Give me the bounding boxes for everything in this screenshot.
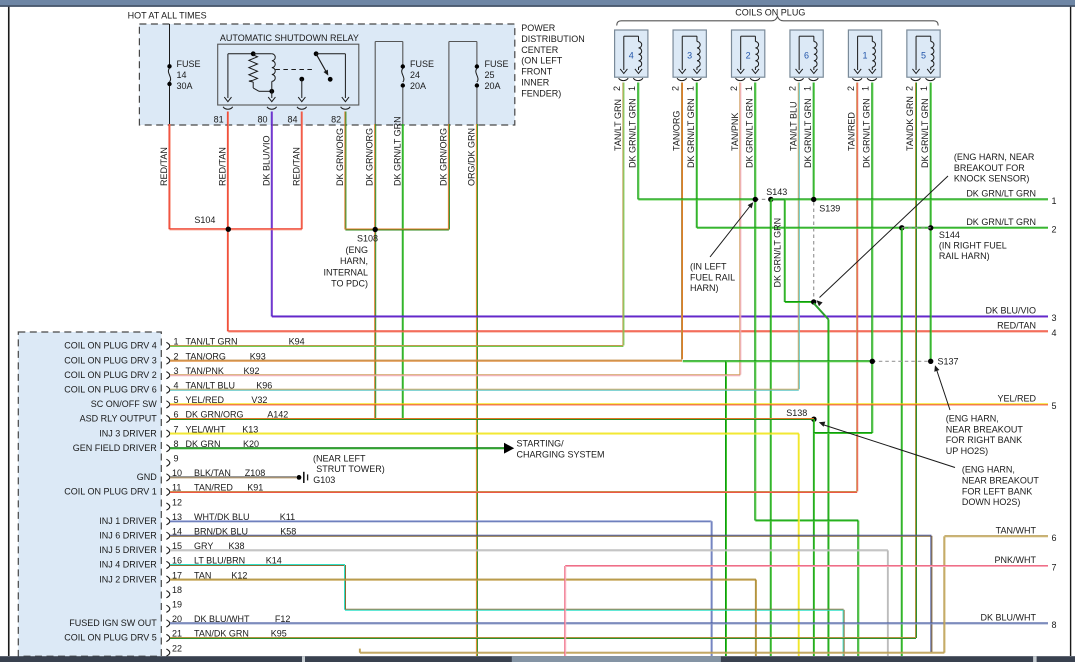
- svg-text:RAIL HARN): RAIL HARN): [939, 251, 990, 261]
- svg-text:DK GRN/ORG: DK GRN/ORG: [438, 128, 448, 186]
- svg-text:14: 14: [177, 70, 187, 80]
- svg-text:DK GRN/LT GRN: DK GRN/LT GRN: [686, 98, 696, 168]
- svg-text:DK GRN/LT GRN: DK GRN/LT GRN: [861, 98, 871, 168]
- svg-text:1: 1: [1052, 196, 1057, 206]
- svg-text:30A: 30A: [177, 81, 193, 91]
- svg-text:DK GRN/LT GRN: DK GRN/LT GRN: [773, 218, 783, 288]
- svg-text:GEN FIELD DRIVER: GEN FIELD DRIVER: [73, 443, 158, 453]
- svg-text:S108: S108: [357, 234, 378, 244]
- svg-text:ASD RLY OUTPUT: ASD RLY OUTPUT: [80, 414, 158, 424]
- svg-text:12: 12: [172, 497, 182, 507]
- svg-text:2: 2: [612, 86, 622, 91]
- svg-text:INJ 2 DRIVER: INJ 2 DRIVER: [99, 574, 157, 584]
- svg-text:22: 22: [172, 643, 182, 653]
- svg-text:81: 81: [214, 115, 224, 125]
- svg-text:(ENG HARN, NEAR: (ENG HARN, NEAR: [954, 152, 1035, 162]
- svg-text:CHARGING SYSTEM: CHARGING SYSTEM: [517, 449, 605, 459]
- svg-text:YEL/RED: YEL/RED: [997, 394, 1036, 404]
- svg-text:TAN/WHT: TAN/WHT: [996, 526, 1037, 536]
- svg-text:NEAR BREAKOUT: NEAR BREAKOUT: [946, 424, 1024, 434]
- svg-text:DK GRN/LT GRN: DK GRN/LT GRN: [920, 98, 930, 168]
- svg-text:INNER: INNER: [521, 78, 550, 88]
- svg-text:DK GRN/LT GRN: DK GRN/LT GRN: [628, 98, 638, 168]
- svg-text:1: 1: [744, 86, 754, 91]
- svg-text:HARN): HARN): [690, 283, 719, 293]
- svg-text:INJ 5 DRIVER: INJ 5 DRIVER: [99, 545, 157, 555]
- svg-text:HOT AT ALL TIMES: HOT AT ALL TIMES: [128, 11, 207, 21]
- svg-text:DK BLU/WHT: DK BLU/WHT: [980, 613, 1036, 623]
- svg-text:2: 2: [746, 51, 751, 61]
- svg-text:STARTING/: STARTING/: [517, 439, 565, 449]
- svg-text:DK GRN/LT GRN: DK GRN/LT GRN: [745, 98, 755, 168]
- svg-text:2: 2: [788, 86, 798, 91]
- svg-text:20A: 20A: [485, 81, 501, 91]
- svg-text:RED/TAN: RED/TAN: [997, 321, 1036, 331]
- svg-text:ORG/DK GRN: ORG/DK GRN: [466, 128, 476, 186]
- svg-text:COILS ON PLUG: COILS ON PLUG: [735, 8, 805, 18]
- svg-text:UP HO2S): UP HO2S): [946, 446, 988, 456]
- svg-text:FUSE: FUSE: [177, 59, 201, 69]
- svg-text:INJ 4 DRIVER: INJ 4 DRIVER: [99, 560, 157, 570]
- svg-text:3: 3: [1052, 313, 1057, 323]
- svg-text:S144: S144: [939, 230, 960, 240]
- svg-text:GND: GND: [137, 472, 158, 482]
- svg-text:18: 18: [172, 585, 182, 595]
- svg-text:2: 2: [729, 86, 739, 91]
- svg-text:S138: S138: [786, 408, 807, 418]
- svg-text:S104: S104: [194, 215, 215, 225]
- svg-text:(ENG HARN,: (ENG HARN,: [962, 465, 1015, 475]
- svg-text:TO PDC): TO PDC): [331, 279, 368, 289]
- svg-text:FRONT: FRONT: [521, 67, 552, 77]
- svg-text:COIL ON PLUG DRV 1: COIL ON PLUG DRV 1: [64, 487, 157, 497]
- svg-text:TAN/LT GRN: TAN/LT GRN: [613, 99, 623, 151]
- svg-text:84: 84: [287, 115, 297, 125]
- svg-text:DK GRN/LT GRN: DK GRN/LT GRN: [966, 189, 1036, 199]
- svg-text:TAN/ORG: TAN/ORG: [671, 111, 681, 151]
- svg-text:(NEAR LEFT: (NEAR LEFT: [313, 453, 366, 463]
- svg-text:KNOCK SENSOR): KNOCK SENSOR): [954, 174, 1030, 184]
- svg-text:PNK/WHT: PNK/WHT: [995, 555, 1037, 565]
- svg-text:FOR LEFT BANK: FOR LEFT BANK: [962, 486, 1032, 496]
- svg-text:DK GRN/LT GRN: DK GRN/LT GRN: [392, 116, 402, 186]
- svg-text:(ON LEFT: (ON LEFT: [521, 56, 563, 66]
- svg-text:HARN,: HARN,: [340, 256, 368, 266]
- svg-text:1: 1: [627, 86, 637, 91]
- svg-text:1: 1: [685, 86, 695, 91]
- svg-text:RED/TAN: RED/TAN: [159, 147, 169, 186]
- svg-text:INJ 3 DRIVER: INJ 3 DRIVER: [99, 428, 157, 438]
- svg-text:DOWN HO2S): DOWN HO2S): [962, 497, 1021, 507]
- svg-text:NEAR BREAKOUT: NEAR BREAKOUT: [962, 476, 1040, 486]
- svg-text:1: 1: [919, 86, 929, 91]
- svg-text:82: 82: [331, 115, 341, 125]
- svg-text:24: 24: [410, 70, 420, 80]
- svg-text:INJ 1 DRIVER: INJ 1 DRIVER: [99, 516, 157, 526]
- svg-text:FENDER): FENDER): [521, 88, 561, 98]
- svg-text:2: 2: [1052, 224, 1057, 234]
- svg-text:TAN/RED: TAN/RED: [847, 112, 857, 151]
- svg-text:DK BLU/VIO: DK BLU/VIO: [261, 135, 271, 186]
- svg-text:COIL ON PLUG DRV 4: COIL ON PLUG DRV 4: [64, 341, 157, 351]
- svg-text:DISTRIBUTION: DISTRIBUTION: [521, 34, 585, 44]
- svg-text:2: 2: [846, 86, 856, 91]
- svg-text:G103: G103: [313, 475, 335, 485]
- svg-text:20A: 20A: [410, 81, 426, 91]
- svg-text:1: 1: [802, 86, 812, 91]
- svg-text:FUEL RAIL: FUEL RAIL: [690, 272, 735, 282]
- svg-text:DK GRN/LT GRN: DK GRN/LT GRN: [803, 98, 813, 168]
- svg-text:CENTER: CENTER: [521, 45, 559, 55]
- svg-text:25: 25: [485, 70, 495, 80]
- svg-text:S143: S143: [766, 187, 787, 197]
- svg-text:INTERNAL: INTERNAL: [323, 267, 368, 277]
- svg-text:COIL ON PLUG DRV 2: COIL ON PLUG DRV 2: [64, 370, 157, 380]
- svg-text:9: 9: [174, 454, 179, 464]
- svg-text:5: 5: [1052, 401, 1057, 411]
- svg-text:S139: S139: [819, 204, 840, 214]
- svg-text:1: 1: [861, 86, 871, 91]
- svg-text:5: 5: [921, 51, 926, 61]
- svg-text:6: 6: [1052, 533, 1057, 543]
- svg-text:FUSED IGN SW OUT: FUSED IGN SW OUT: [69, 618, 157, 628]
- svg-text:DK GRN/LT GRN: DK GRN/LT GRN: [966, 217, 1036, 227]
- svg-text:POWER: POWER: [521, 23, 556, 33]
- svg-text:FUSE: FUSE: [410, 59, 434, 69]
- svg-text:FOR RIGHT BANK: FOR RIGHT BANK: [946, 435, 1022, 445]
- svg-text:COIL ON PLUG DRV 3: COIL ON PLUG DRV 3: [64, 355, 157, 365]
- svg-text:6: 6: [804, 51, 809, 61]
- svg-text:3: 3: [687, 51, 692, 61]
- svg-text:4: 4: [629, 51, 634, 61]
- svg-text:(IN LEFT: (IN LEFT: [690, 262, 727, 272]
- svg-text:2: 2: [671, 86, 681, 91]
- svg-text:RED/TAN: RED/TAN: [291, 147, 301, 186]
- svg-text:SC ON/OFF SW: SC ON/OFF SW: [91, 399, 158, 409]
- svg-text:DK GRN/ORG: DK GRN/ORG: [335, 128, 345, 186]
- svg-text:DK GRN/ORG: DK GRN/ORG: [365, 128, 375, 186]
- svg-text:(IN RIGHT FUEL: (IN RIGHT FUEL: [939, 240, 1007, 250]
- svg-text:AUTOMATIC SHUTDOWN RELAY: AUTOMATIC SHUTDOWN RELAY: [220, 33, 359, 43]
- svg-text:TAN/LT BLU: TAN/LT BLU: [788, 101, 798, 151]
- svg-text:INJ 6 DRIVER: INJ 6 DRIVER: [99, 531, 157, 541]
- svg-text:FUSE: FUSE: [485, 59, 509, 69]
- svg-text:TAN/PNK: TAN/PNK: [730, 113, 740, 151]
- svg-text:BREAKOUT FOR: BREAKOUT FOR: [954, 163, 1025, 173]
- svg-text:COIL ON PLUG DRV 5: COIL ON PLUG DRV 5: [64, 633, 157, 643]
- svg-text:2: 2: [904, 86, 914, 91]
- svg-text:7: 7: [1052, 563, 1057, 573]
- svg-text:(ENG: (ENG: [346, 245, 369, 255]
- svg-text:(ENG HARN,: (ENG HARN,: [946, 414, 999, 424]
- svg-text:STRUT TOWER): STRUT TOWER): [316, 464, 385, 474]
- svg-text:COIL ON PLUG DRV 6: COIL ON PLUG DRV 6: [64, 385, 157, 395]
- svg-text:4: 4: [1052, 328, 1057, 338]
- svg-text:80: 80: [257, 115, 267, 125]
- svg-text:DK BLU/VIO: DK BLU/VIO: [985, 306, 1036, 316]
- svg-text:RED/TAN: RED/TAN: [217, 147, 227, 186]
- svg-text:8: 8: [1052, 620, 1057, 630]
- svg-text:TAN/DK GRN: TAN/DK GRN: [905, 96, 915, 151]
- svg-text:S137: S137: [938, 357, 959, 367]
- svg-text:1: 1: [862, 51, 867, 61]
- svg-text:19: 19: [172, 600, 182, 610]
